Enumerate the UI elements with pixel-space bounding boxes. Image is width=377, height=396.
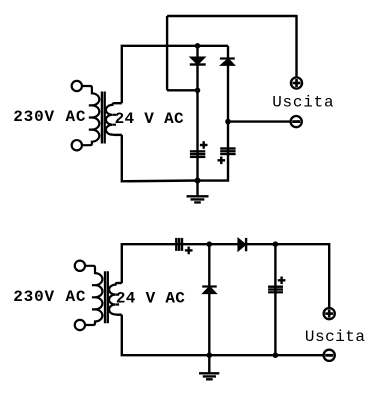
wire branch D4 vertical xyxy=(208,244,210,355)
node C (minus output tap) xyxy=(225,119,231,125)
svg-text:Uscita: Uscita xyxy=(305,328,366,346)
wire bottom rail xyxy=(122,315,323,356)
wire transformer secondary top lead drop xyxy=(121,45,123,103)
primary terminal circle bottom xyxy=(72,140,82,150)
wire branch D1/C1 vertical xyxy=(196,46,198,181)
capacitor C1 (left electrolytic) xyxy=(190,141,208,158)
primary terminal circle top xyxy=(72,81,82,91)
node D (ground node) xyxy=(195,178,201,184)
svg-text:230V AC: 230V AC xyxy=(13,108,86,126)
wire secondary bottom lead (T2) xyxy=(117,314,122,316)
output terminal plus (bottom circuit) xyxy=(324,308,335,319)
node H (bottom rail / C4) xyxy=(273,352,279,358)
svg-text:24 V AC: 24 V AC xyxy=(115,110,184,128)
wire minus output (top circuit) xyxy=(228,120,290,122)
wire branch D2/C2 vertical with elbow to ground node xyxy=(198,46,229,181)
wire secondary top lead xyxy=(114,102,122,104)
diode D2 (right, cathode bar on top) xyxy=(220,57,235,65)
node F (rail to C4) xyxy=(273,241,279,247)
node B (elbow junction under D1) xyxy=(195,88,201,94)
diode D3 (series, pointing right) xyxy=(238,238,247,251)
diode D1 (left, anode up / cathode bar below) xyxy=(190,57,206,66)
svg-text:230V AC: 230V AC xyxy=(13,288,86,306)
capacitor C2 (right electrolytic) xyxy=(218,147,236,164)
wire secondary top lead (T2) xyxy=(117,282,122,284)
secondary winding xyxy=(106,103,114,135)
wire vertical to plus output xyxy=(295,15,297,77)
capacitor C3 (series electrolytic, horizontal) xyxy=(175,238,192,254)
wire top rail (cathode of D1 net) xyxy=(167,15,296,17)
primary winding xyxy=(82,86,99,145)
primary cusp nubs xyxy=(89,105,92,129)
output terminal plus (top circuit) xyxy=(291,77,302,88)
capacitor C4 (output electrolytic) xyxy=(268,277,285,294)
node E (rail to C3/D4) xyxy=(207,241,213,247)
ground (top circuit) xyxy=(187,181,209,203)
ground (bottom circuit) xyxy=(199,355,219,379)
transformer T2 xyxy=(75,261,119,331)
node G (bottom rail / ground) xyxy=(207,352,213,358)
secondary cusp nubs xyxy=(113,115,116,125)
wire transformer bottom to ground node xyxy=(122,135,198,181)
core lines xyxy=(102,92,105,144)
output terminal minus (top circuit) xyxy=(291,116,302,127)
wire vertical x=167 from top rail xyxy=(166,16,168,90)
transformer T1 xyxy=(72,81,116,151)
wire elbow to node under D1 xyxy=(167,89,197,91)
svg-text:Uscita: Uscita xyxy=(272,93,334,111)
wire second rail (transformer secondary top net) xyxy=(122,45,228,47)
wire top rail of bottom circuit (left part to C3) xyxy=(122,244,329,308)
node A (rail to D1) xyxy=(195,43,201,49)
output terminal minus (bottom circuit) xyxy=(324,350,335,361)
wire secondary bottom lead xyxy=(114,134,122,136)
svg-text:24 V AC: 24 V AC xyxy=(116,290,185,308)
diode D4 (shunt, cathode bar on top) xyxy=(202,285,217,293)
wire branch C4 vertical xyxy=(274,244,276,355)
